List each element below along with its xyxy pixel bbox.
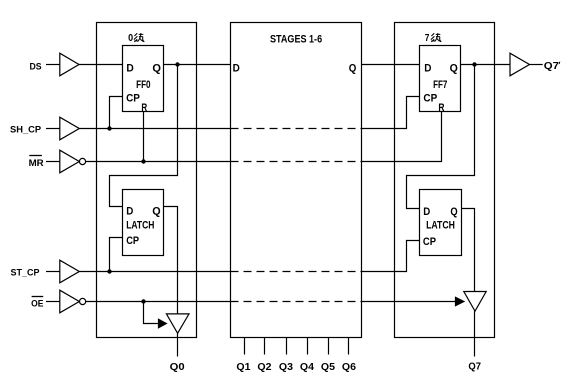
svg-text:Q4: Q4 bbox=[300, 361, 314, 373]
wire Q7 output stub bbox=[474, 311, 476, 356]
latch U-LATCH0 bbox=[123, 190, 164, 256]
svg-text:Q: Q bbox=[152, 206, 161, 218]
junction dot SH_CP / FF0 CP bbox=[107, 126, 111, 130]
wire OE branch to Q0 tri-state enable with arrow bbox=[144, 302, 160, 324]
svg-text:CP: CP bbox=[126, 93, 140, 105]
wire node Q0 internal: vertical from Q junction down to LATCH0 D bbox=[110, 65, 178, 207]
wire OE to Q7 tri-state enable with arrow bbox=[362, 301, 457, 303]
wire FF0 Q output to stages D input bbox=[164, 64, 231, 66]
svg-text:MR: MR bbox=[29, 157, 44, 168]
block box STAGES 1-6 bbox=[231, 23, 362, 338]
inverter OE input bbox=[60, 290, 80, 313]
tri-state buffer Q0 bbox=[166, 314, 189, 333]
svg-text:Q: Q bbox=[450, 63, 459, 75]
wire LATCH0 Q output to tri-state buffer bbox=[164, 207, 178, 315]
svg-text:Q6: Q6 bbox=[342, 361, 356, 373]
svg-text:Q: Q bbox=[349, 62, 357, 74]
svg-text:D: D bbox=[423, 206, 430, 218]
tri-state buffer Q7 bbox=[464, 292, 486, 312]
junction dot MR / FF0 R bbox=[141, 159, 145, 163]
svg-text:CP: CP bbox=[126, 235, 139, 247]
junction dot node FF7 Q bbox=[472, 62, 476, 66]
wire stages output stub Q3 bbox=[286, 338, 288, 355]
wire SH_CP to FF7 CP pin bbox=[362, 97, 420, 129]
svg-text:Q: Q bbox=[450, 206, 458, 218]
wire stages output stub Q2 bbox=[264, 338, 266, 355]
svg-text:ST_CP: ST_CP bbox=[11, 267, 40, 278]
glyph 级 for stage 7 bbox=[431, 33, 441, 42]
wire SH_CP branch up to FF0 CP pin bbox=[110, 97, 123, 129]
block box stage 7 (7级) bbox=[395, 23, 495, 338]
svg-text:LATCH: LATCH bbox=[426, 220, 455, 232]
buffer SH_CP input bbox=[60, 117, 80, 140]
svg-text:D: D bbox=[126, 206, 133, 218]
wire OE line across to stages box bbox=[86, 301, 231, 303]
wire dashed SH_CP through stages box bbox=[231, 128, 362, 130]
overline for MR label bbox=[29, 155, 42, 157]
wire MR label to inverter bbox=[46, 161, 60, 163]
svg-text:Q1: Q1 bbox=[236, 361, 250, 373]
wire dashed MR through stages box bbox=[231, 161, 362, 163]
svg-text:Q0: Q0 bbox=[170, 361, 185, 373]
svg-text:SH_CP: SH_CP bbox=[10, 124, 41, 135]
svg-text:R: R bbox=[438, 102, 444, 114]
wire Q7' buffer to label bbox=[530, 64, 543, 66]
buffer DS input bbox=[60, 53, 79, 76]
svg-text:DS: DS bbox=[30, 61, 42, 72]
junction dot OE / Q0 enable bbox=[141, 299, 145, 303]
svg-text:D: D bbox=[424, 63, 431, 75]
wire stages output stub Q4 bbox=[307, 338, 309, 355]
svg-text:FF7: FF7 bbox=[433, 79, 447, 91]
flip-flop FF0 bbox=[123, 46, 164, 112]
wire stages Q output to FF7 D pin bbox=[362, 64, 420, 66]
overline for OE label bbox=[32, 296, 44, 298]
wire dashed OE through stages box bbox=[231, 301, 362, 303]
wire ST_CP label to buffer bbox=[46, 271, 60, 273]
wire MR line across to stages box bbox=[86, 161, 231, 163]
svg-text:CP: CP bbox=[423, 93, 437, 105]
wire SH_CP label to buffer bbox=[46, 128, 60, 130]
svg-text:OE: OE bbox=[31, 298, 43, 309]
flip-flop FF7 bbox=[420, 46, 461, 112]
wire DS label to buffer bbox=[46, 64, 60, 66]
wire FF7 Q output to Q7' buffer bbox=[461, 64, 511, 66]
wire SH_CP line across to stages box bbox=[79, 128, 230, 130]
wire stages output stub Q1 bbox=[244, 338, 246, 355]
svg-text:Q2: Q2 bbox=[257, 361, 271, 373]
svg-text:D: D bbox=[126, 63, 133, 75]
buffer Q7' output bbox=[510, 53, 530, 76]
svg-text:Q: Q bbox=[152, 63, 161, 75]
wire dashed ST_CP through stages box bbox=[231, 271, 362, 273]
wire ST_CP line across to stages box bbox=[79, 271, 230, 273]
svg-text:Q7: Q7 bbox=[468, 360, 481, 372]
wire MR to FF7 R pin bbox=[362, 112, 442, 162]
buffer ST_CP input bbox=[60, 260, 80, 283]
junction dot node FF0 Q bbox=[175, 62, 179, 66]
wire DS buffer to FF0 D pin bbox=[79, 64, 123, 66]
svg-text:LATCH: LATCH bbox=[126, 220, 154, 232]
svg-text:Q7: Q7 bbox=[544, 60, 559, 72]
svg-text:Q3: Q3 bbox=[279, 361, 293, 373]
wire LATCH7 Q output to tri-state buffer bbox=[462, 209, 475, 292]
wire node Q7 internal: vertical from Q junction down to LATCH7 D bbox=[407, 65, 475, 209]
svg-text:0: 0 bbox=[128, 33, 133, 44]
svg-text:D: D bbox=[233, 62, 240, 74]
wire stages output stub Q6 bbox=[348, 338, 350, 355]
svg-text:Q5: Q5 bbox=[321, 361, 335, 373]
wire ST_CP to LATCH7 CP pin bbox=[362, 241, 420, 272]
svg-text:CP: CP bbox=[423, 236, 436, 248]
wire OE label to inverter bbox=[46, 301, 60, 303]
wire stages output stub Q5 bbox=[328, 338, 330, 355]
inverter MR input bbox=[60, 150, 80, 173]
svg-text:R: R bbox=[141, 102, 147, 114]
latch U-LATCH7 bbox=[420, 190, 462, 256]
svg-text:7: 7 bbox=[425, 33, 430, 44]
wire FF0 R pin down to MR line bbox=[143, 112, 145, 162]
wire Q0 output stub bbox=[177, 333, 179, 356]
glyph 级 for stage 0 bbox=[134, 33, 144, 42]
svg-text:STAGES 1-6: STAGES 1-6 bbox=[270, 34, 322, 46]
wire ST_CP branch up to LATCH0 CP pin bbox=[110, 238, 123, 272]
junction dot ST_CP / LATCH0 CP bbox=[107, 269, 111, 273]
svg-text:FF0: FF0 bbox=[136, 79, 151, 91]
block box stage 0 (0级) bbox=[97, 23, 197, 338]
